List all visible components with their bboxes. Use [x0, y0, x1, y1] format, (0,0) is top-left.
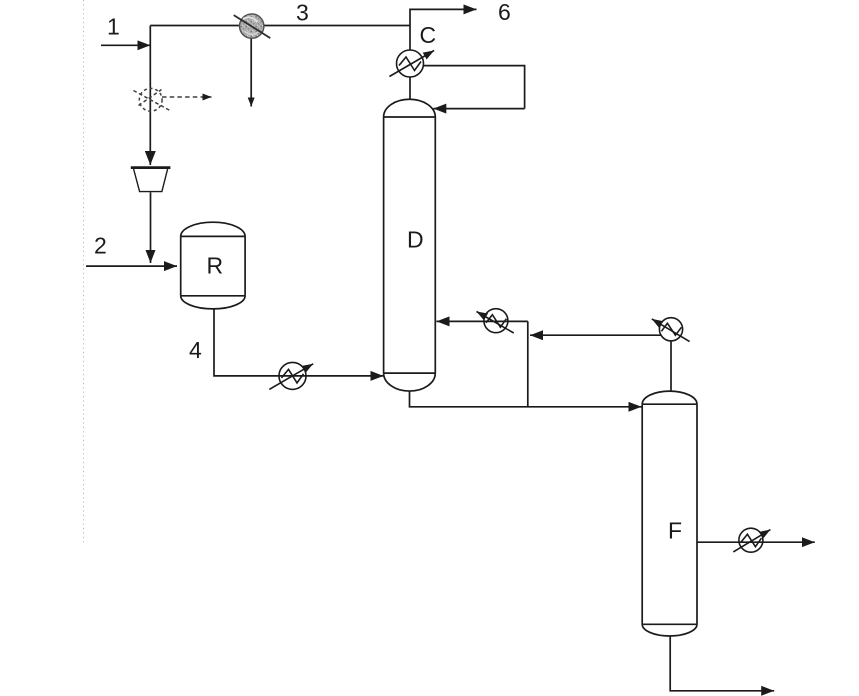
svg-text:D: D — [407, 227, 424, 253]
svg-text:6: 6 — [498, 0, 511, 25]
svg-text:1: 1 — [107, 14, 120, 40]
svg-text:F: F — [668, 518, 682, 544]
svg-text:4: 4 — [189, 337, 202, 363]
svg-text:2: 2 — [94, 233, 107, 259]
svg-text:3: 3 — [296, 0, 309, 26]
svg-text:C: C — [420, 22, 437, 48]
svg-text:R: R — [207, 253, 224, 279]
